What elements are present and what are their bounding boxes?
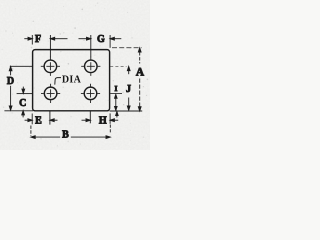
DIA leader line [55,78,61,85]
extension line lower hole row left [17,93,33,95]
dim B right tick [109,125,111,134]
dim H right arrow [114,119,118,121]
dim D line lower part with down arrow [10,86,12,106]
svg-text:D: D [7,76,14,87]
dim J lower line with down arrow [128,98,130,107]
small up arrow below bottom extension at I [116,115,118,118]
svg-text:A: A [136,67,145,79]
hole H3 centerlines [41,84,60,103]
dim C bottom arrow pointing up [22,115,24,118]
extension line upper hole row right [110,65,126,67]
svg-text:E: E [35,116,42,127]
extension tick at plate right top [109,35,111,48]
extension tick plate left bottom [31,114,33,125]
extension line hole2 center above plate [90,35,92,57]
plate outline [33,50,110,111]
dim A lower line with down arrow [139,79,141,107]
extension line upper hole row left [10,65,33,67]
dim G left arrow [79,38,87,40]
svg-text:B: B [62,129,69,140]
dim E left arrow [25,119,29,121]
dim G right arrow [114,38,121,40]
dim E right arrow [54,119,57,121]
extension line hole3 center below plate [49,111,51,125]
dim B line left with left arrow [35,136,60,138]
dim F left arrow [24,38,29,40]
hole H4 circle [84,87,97,100]
scan speckle noise [2,2,148,146]
extension line lower hole row right [110,93,122,95]
svg-text:I: I [114,84,117,93]
dim H left arrow [82,119,87,121]
extension line hole1 center above plate [49,35,51,57]
extension tick at plate left top [31,35,33,45]
dim J up arrow [128,71,130,75]
svg-text:G: G [97,34,105,45]
top extension line right of plate [112,47,142,49]
dim D line upper part with up arrow [10,71,12,75]
hole H1 centerlines [41,57,60,76]
hole H3 circle [44,87,57,100]
hole H2 circle [85,60,98,73]
paper background [0,0,150,150]
dim B left tick [30,126,32,136]
bottom extension line right of plate [110,110,143,112]
hole H4 centerlines [81,84,100,103]
dim A up arrow [139,52,141,63]
svg-text:H: H [99,116,107,127]
dim B line right with right arrow [71,136,106,138]
hole H2 centerlines [81,57,100,76]
bottom extension line left of plate [4,110,33,112]
dim I line with up and down arrows [115,98,117,106]
extension tick plate right bottom [109,113,111,123]
dim F right arrow [55,38,68,40]
dim C top arrow pointing down [22,87,24,90]
svg-text:DIA: DIA [62,75,82,86]
extension line hole4 center below plate [89,111,91,124]
svg-text:C: C [19,98,26,109]
svg-text:F: F [35,34,41,45]
svg-text:J: J [126,84,131,95]
hole H1 circle [44,60,57,73]
